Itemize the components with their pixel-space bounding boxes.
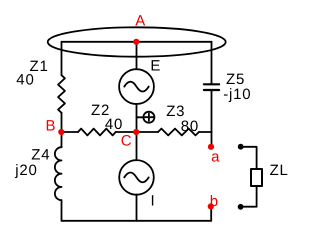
wire bus horizontal <box>62 41 212 43</box>
terminal dot ZL top <box>238 144 244 150</box>
terminal dot ZL bottom <box>238 204 244 210</box>
svg-text:40: 40 <box>16 72 34 89</box>
capacitor Z5 <box>204 84 219 90</box>
wire bus to Z1 <box>61 42 63 75</box>
svg-text:80: 80 <box>181 118 199 135</box>
wire Z5 to Z3 junction <box>211 91 213 132</box>
svg-text:-j10: -j10 <box>223 86 251 103</box>
node b <box>208 203 214 209</box>
svg-text:b: b <box>210 193 219 210</box>
polarity marker plus <box>137 112 155 123</box>
node a <box>208 144 214 150</box>
svg-text:A: A <box>135 13 146 30</box>
wire Z2 to node C <box>116 131 137 133</box>
wire node C to source I <box>136 132 138 160</box>
impedance box ZL <box>251 169 262 186</box>
wire junction to node a <box>211 132 213 147</box>
resistor Z1 <box>58 75 65 113</box>
source E <box>119 69 154 104</box>
svg-text:ZL: ZL <box>270 162 289 179</box>
node B <box>58 129 64 135</box>
wire bus to Z5 <box>211 42 213 83</box>
resistor Z2 <box>78 129 116 136</box>
source I <box>119 160 154 195</box>
node A <box>133 39 139 45</box>
svg-text:Z4: Z4 <box>31 147 50 164</box>
wire bottom to node b <box>210 207 212 221</box>
wire source I to bottom <box>136 195 138 221</box>
wire node C to Z3 <box>136 131 158 133</box>
svg-text:a: a <box>211 148 220 165</box>
svg-text:j20: j20 <box>14 162 37 179</box>
svg-text:E: E <box>150 57 161 74</box>
svg-text:40: 40 <box>105 116 123 133</box>
bus ellipse <box>48 27 226 56</box>
inductor Z4 <box>55 147 62 200</box>
wire box to ZL bottom terminal <box>241 186 257 207</box>
wire B to Z4 <box>61 132 63 147</box>
wire node A to source E <box>136 42 138 69</box>
svg-text:B: B <box>46 117 57 134</box>
wire bottom horizontal <box>62 220 212 222</box>
wire source E to node C <box>136 104 138 132</box>
svg-text:C: C <box>121 133 133 150</box>
wire ZL top terminal to box <box>241 147 257 169</box>
svg-text:I: I <box>151 192 156 209</box>
node C <box>133 129 139 135</box>
wire B to Z2 <box>62 131 79 133</box>
wire Z3 to right junction <box>199 131 212 133</box>
wire Z4 to bottom <box>61 200 63 221</box>
resistor Z3 <box>158 129 199 136</box>
wire Z1 to node B <box>61 113 63 132</box>
